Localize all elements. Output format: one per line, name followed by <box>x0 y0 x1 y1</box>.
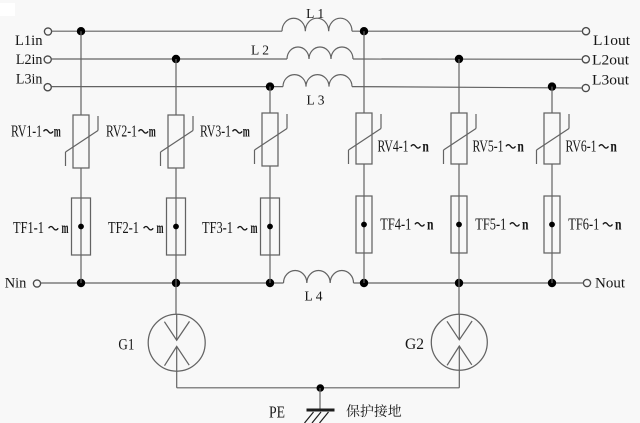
svg-text:n: n <box>517 138 524 155</box>
gas discharge tube G1 <box>118 314 205 371</box>
wire N row right <box>354 282 584 284</box>
inductor L4 <box>284 271 354 304</box>
svg-text:L3out: L3out <box>592 73 629 89</box>
varistor RV6 <box>537 113 570 164</box>
svg-text:Nin: Nin <box>5 275 27 291</box>
svg-text:L1: L1 <box>306 6 327 21</box>
label RV3-1~m <box>200 121 250 140</box>
svg-text:n: n <box>522 216 529 233</box>
wire column 6 lower <box>551 164 553 283</box>
gas discharge tube G2 <box>405 314 487 370</box>
junction L2-RV5 <box>455 55 463 63</box>
varistor RV5 <box>444 113 477 164</box>
svg-text:TF1-1: TF1-1 <box>13 218 44 237</box>
terminal L2out <box>582 53 629 69</box>
fuse TF6 <box>544 196 560 253</box>
svg-text:TF3-1: TF3-1 <box>202 218 233 237</box>
junction L1-RV1 <box>77 27 85 35</box>
wire column 4 lower <box>363 164 365 283</box>
junction PE <box>317 384 325 392</box>
inductor L3 <box>283 75 352 108</box>
wire column 6 upper <box>551 87 553 113</box>
terminal L3out <box>582 73 629 92</box>
label TF3-1~m <box>202 218 258 237</box>
wire column 5 upper <box>458 59 460 113</box>
label 保护接地 (protective earth) <box>346 404 401 417</box>
svg-text:RV6-1: RV6-1 <box>566 136 597 155</box>
wire column 1 upper <box>80 31 82 115</box>
wire column 2 lower <box>175 168 177 283</box>
junction L3-RV6 <box>548 82 556 90</box>
svg-text:G2: G2 <box>405 336 424 353</box>
varistor RV4 <box>349 113 382 164</box>
label RV4-1~n <box>378 136 429 155</box>
varistor RV2 <box>161 115 194 168</box>
label RV2-1~m <box>106 121 156 140</box>
svg-text:n: n <box>427 216 434 233</box>
terminal L3in <box>16 72 51 91</box>
terminal Nin <box>5 275 41 291</box>
fuse TF3 <box>261 198 280 255</box>
junction L2-RV2 <box>172 55 180 63</box>
svg-text:m: m <box>157 220 164 237</box>
fuse TF4 <box>356 196 372 253</box>
label PE <box>269 403 285 422</box>
fuse TF2 <box>167 198 186 255</box>
svg-text:Nout: Nout <box>595 276 625 292</box>
wire G1 lower <box>176 346 178 387</box>
svg-text:TF6-1: TF6-1 <box>568 214 599 233</box>
wire L3 row right <box>352 87 582 88</box>
label TF4-1~n <box>380 214 433 233</box>
terminal L1in <box>15 28 52 49</box>
wire L3 row left <box>52 86 284 88</box>
wire column 5 lower <box>458 164 460 283</box>
wire G2 upper <box>458 283 460 340</box>
svg-text:L2out: L2out <box>592 53 629 69</box>
inductor L1 <box>282 6 352 31</box>
svg-text:RV2-1: RV2-1 <box>106 121 137 140</box>
junction L1-RV4 <box>360 27 368 35</box>
wire column 3 upper <box>269 87 271 113</box>
svg-text:m: m <box>243 123 250 140</box>
inductor L2 <box>251 43 353 60</box>
ground PE symbol <box>305 410 335 423</box>
junction L3-RV3 <box>266 82 274 90</box>
svg-text:L1in: L1in <box>15 33 43 49</box>
terminal L1out <box>582 28 630 49</box>
junction N-col6 <box>548 279 556 287</box>
svg-text:TF2-1: TF2-1 <box>108 218 139 237</box>
wire column 1 lower <box>80 168 82 283</box>
svg-text:RV3-1: RV3-1 <box>200 121 231 140</box>
fuse TF1 <box>72 198 91 255</box>
varistor RV3 <box>255 113 288 166</box>
wire bottom PE bus <box>177 387 460 389</box>
label TF2-1~m <box>108 218 164 237</box>
wire column 2 upper <box>175 59 177 115</box>
svg-text:PE: PE <box>269 403 285 422</box>
svg-text:n: n <box>422 138 429 155</box>
junction N-col1 <box>77 279 85 287</box>
junction N-col4 <box>360 279 368 287</box>
wire L2 row left <box>51 58 287 60</box>
terminal Nout <box>583 276 625 292</box>
wire column 3 lower <box>269 166 271 283</box>
wire L1 row left <box>52 30 283 32</box>
svg-text:m: m <box>62 220 69 237</box>
junction N-col3 <box>266 279 274 287</box>
label TF1-1~m <box>13 218 69 237</box>
svg-text:TF5-1: TF5-1 <box>475 214 506 233</box>
fuse TF5 <box>451 196 467 253</box>
svg-text:L1out: L1out <box>593 33 630 49</box>
svg-text:G1: G1 <box>118 336 134 353</box>
wire N row left <box>41 282 284 284</box>
wire G2 lower <box>458 346 460 388</box>
wire PE stub <box>319 388 321 409</box>
svg-text:L3: L3 <box>307 93 328 108</box>
junction N-col5 <box>455 279 463 287</box>
svg-text:m: m <box>251 220 258 237</box>
svg-text:RV4-1: RV4-1 <box>378 136 409 155</box>
svg-text:L3in: L3in <box>16 72 43 88</box>
svg-text:L4: L4 <box>305 289 326 304</box>
label TF6-1~n <box>568 214 621 233</box>
svg-text:m: m <box>54 123 61 140</box>
svg-text:n: n <box>610 138 617 155</box>
terminal L2in <box>16 52 51 68</box>
svg-text:m: m <box>149 123 156 140</box>
svg-text:n: n <box>615 216 622 233</box>
svg-text:L2: L2 <box>251 43 272 58</box>
wire L2 row right <box>353 58 582 60</box>
label RV1-1~m <box>11 121 61 140</box>
wire L1 row right <box>352 30 583 32</box>
label RV5-1~n <box>473 136 524 155</box>
wire G1 upper <box>175 283 178 340</box>
svg-text:RV5-1: RV5-1 <box>473 136 504 155</box>
wire column 4 upper <box>363 31 365 113</box>
svg-text:L2in: L2in <box>16 52 43 68</box>
label TF5-1~n <box>475 214 528 233</box>
svg-text:RV1-1: RV1-1 <box>11 121 42 140</box>
junction N-col2 <box>172 279 180 287</box>
svg-text:TF4-1: TF4-1 <box>380 214 411 233</box>
varistor RV1 <box>66 115 99 168</box>
label RV6-1~n <box>566 136 617 155</box>
